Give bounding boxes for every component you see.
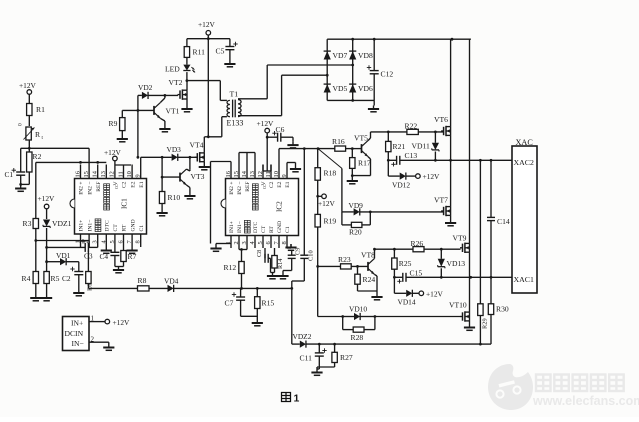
resistor R2 <box>27 152 32 172</box>
wire bus down to VDZ2 <box>291 288 293 344</box>
svg-text:R16: R16 <box>332 137 345 146</box>
wire LED to R11 <box>186 57 188 64</box>
svg-text:VT1: VT1 <box>166 107 180 116</box>
svg-text:1: 1 <box>75 240 82 243</box>
wire R26 to VT9 gate <box>424 248 461 250</box>
wire C10 bottom hook to bus <box>303 258 305 281</box>
svg-text:+12V: +12V <box>19 81 37 90</box>
rectifier bottom bus <box>327 99 374 101</box>
junction R21 top <box>387 131 390 134</box>
figure caption 图1 <box>282 393 291 402</box>
wire VD3 to VT4 gate <box>178 156 198 158</box>
svg-text:RT: RT <box>269 226 275 233</box>
wire R27 bottom <box>334 363 336 368</box>
svg-text:IN2 +: IN2 + <box>229 182 235 195</box>
transistor VT7 mosfet <box>441 210 444 212</box>
svg-text:E133: E133 <box>227 119 244 128</box>
wire IC2 pin16 left rail <box>230 162 232 165</box>
wire VT8 collector <box>374 256 376 258</box>
resistor R12 <box>239 262 244 274</box>
svg-text:R28: R28 <box>351 333 364 342</box>
svg-text:C12: C12 <box>381 70 394 79</box>
svg-text:R21: R21 <box>393 142 406 151</box>
svg-text:E1: E1 <box>139 181 145 187</box>
svg-text:R3: R3 <box>23 219 32 228</box>
svg-text:R17: R17 <box>358 159 371 168</box>
resistor R18 chain <box>317 149 319 168</box>
svg-text:VD6: VD6 <box>358 84 373 93</box>
svg-text:CT: CT <box>113 224 119 232</box>
wire VD10 right <box>360 316 375 318</box>
svg-text:R8: R8 <box>138 276 147 285</box>
svg-text:R26: R26 <box>411 239 424 248</box>
zener VD11 <box>434 132 436 143</box>
ground IC1 pin7 <box>131 247 133 251</box>
junction R24 top <box>356 265 359 268</box>
diode VD6 <box>349 84 356 92</box>
wire VT10 drain up <box>469 277 471 312</box>
wire secondary bottom to bridge <box>238 115 282 117</box>
wire R11 to rail <box>186 39 188 47</box>
resistor R26 <box>413 247 424 252</box>
resistor R1 <box>27 104 32 116</box>
wire VD9 rail <box>342 211 354 213</box>
ground R5 <box>46 284 48 295</box>
wire VT8 emitter <box>375 274 378 276</box>
wire R22 to VT6 gate <box>418 131 443 133</box>
wire <box>28 94 30 103</box>
resistor R21 <box>387 132 389 142</box>
wire R3 bottom bus <box>35 229 37 272</box>
svg-text:16: 16 <box>225 171 232 177</box>
svg-text:9: 9 <box>281 174 288 177</box>
ground C7 R15 <box>256 320 258 324</box>
svg-text:VDZ1: VDZ1 <box>52 219 72 228</box>
wire VT9 drain to top rail <box>469 39 471 243</box>
capacitor C15 <box>394 276 402 278</box>
wire VT5 emitter <box>368 157 371 159</box>
junction R20 right <box>369 211 372 214</box>
svg-text:VT8: VT8 <box>361 251 375 260</box>
svg-text:9: 9 <box>135 174 142 177</box>
transistor VT8 <box>367 262 369 271</box>
wire C4 bottom <box>114 256 116 267</box>
ground R17 <box>351 178 353 182</box>
wire VD2 <box>138 94 142 96</box>
svg-text:LED: LED <box>165 65 180 74</box>
wire C8 to ground <box>268 257 270 259</box>
wire VT4 drain <box>203 137 205 153</box>
wire C13 to VD11 node <box>400 159 436 161</box>
svg-text:VT2: VT2 <box>169 78 183 87</box>
resistor R5 <box>44 272 49 284</box>
svg-text:+12V: +12V <box>113 318 131 327</box>
svg-text:E2: E2 <box>277 181 283 187</box>
svg-text:VDZ2: VDZ2 <box>293 332 312 341</box>
wire to VT10 gate <box>375 316 461 318</box>
svg-text:C1: C1 <box>139 225 145 232</box>
svg-text:6: 6 <box>118 240 125 243</box>
svg-text:8: 8 <box>135 240 142 243</box>
svg-text:12: 12 <box>257 171 264 177</box>
svg-text:C1: C1 <box>285 226 291 233</box>
svg-text:RT: RT <box>122 224 128 231</box>
wire C11 bottom <box>318 356 320 369</box>
XAC1 wire <box>441 276 512 278</box>
wire VD9 to VT7 gate <box>360 211 444 213</box>
diode VD14 <box>406 290 412 297</box>
svg-text:+12V: +12V <box>426 290 444 299</box>
IC2 pin stubs bottom <box>230 236 232 249</box>
svg-text:VD9: VD9 <box>349 201 364 210</box>
svg-text:C2: C2 <box>62 274 71 283</box>
wire node to IC1 pin2 <box>36 240 89 242</box>
ground IC2 pin8 <box>287 247 291 249</box>
wire VD1 to C2 <box>66 261 79 263</box>
svg-text:R29: R29 <box>482 318 489 329</box>
resistor R8 <box>138 286 150 291</box>
capacitor C8 <box>264 248 266 258</box>
svg-text:IN+: IN+ <box>71 319 83 328</box>
wire VD2 to VT2 gate <box>148 94 178 96</box>
svg-text:R23: R23 <box>338 255 351 264</box>
junction VD2 base crossing <box>137 109 140 112</box>
svg-text:IC2: IC2 <box>276 201 284 212</box>
capacitor C7 <box>240 288 242 297</box>
capacitor C13 <box>388 159 396 161</box>
junction bottom bus <box>351 99 354 102</box>
junction R23 node <box>316 265 319 268</box>
junction VD11 gate node <box>434 131 437 134</box>
svg-text:IN1+: IN1+ <box>229 221 235 233</box>
diode VD12 branch <box>387 160 389 176</box>
ground IC1 pin4 <box>105 247 107 251</box>
svg-text:2: 2 <box>233 241 240 244</box>
ground C9 <box>282 273 284 277</box>
svg-text:IN2 −: IN2 − <box>237 182 243 195</box>
svg-text:CC: CC <box>263 184 267 189</box>
junction C1 R2 <box>19 183 22 186</box>
svg-text:10: 10 <box>273 171 280 177</box>
rectifier top bus <box>327 38 471 40</box>
svg-text:DCIN: DCIN <box>65 329 84 338</box>
wire R25 bottom <box>393 269 395 277</box>
wire VT6 source down <box>450 135 452 160</box>
XAC2 wire <box>435 159 512 161</box>
DCIN connector box <box>63 317 90 351</box>
wire R15 bottom <box>256 309 258 320</box>
wire VT3 emitter ground <box>187 185 190 187</box>
diode VD8 <box>349 51 356 59</box>
wire R5 chain <box>46 247 48 271</box>
wire C7 bottom <box>240 300 242 316</box>
wire to IC1 pin15 <box>21 147 89 149</box>
svg-text:VT10: VT10 <box>449 301 467 310</box>
wire rail to R3 <box>35 162 37 218</box>
wire secondary top to bridge <box>238 98 267 100</box>
wire R18 to +12V tap <box>317 180 319 214</box>
junction col A <box>326 74 329 77</box>
wire R21 bottom <box>387 152 389 161</box>
ground VT8 <box>376 291 378 294</box>
ground VT10 source <box>469 321 471 324</box>
svg-text:IN2 −: IN2 − <box>87 182 93 195</box>
svg-text:14: 14 <box>241 170 248 177</box>
transformer right winding <box>238 100 241 117</box>
resistor R15 <box>256 288 258 296</box>
junction R25 top <box>393 248 396 251</box>
svg-text:12: 12 <box>109 171 116 177</box>
wire IC2 E1 to ground <box>286 163 288 165</box>
svg-text:C14: C14 <box>497 217 510 226</box>
svg-text:R7: R7 <box>128 252 137 261</box>
svg-text:6: 6 <box>265 241 272 244</box>
svg-text:0: 0 <box>18 123 24 126</box>
svg-text:C5: C5 <box>216 47 225 56</box>
svg-text:R: R <box>35 130 41 139</box>
junction R17 top <box>351 147 354 150</box>
capacitor C10 top wire <box>303 149 305 256</box>
ground bridge <box>373 100 375 105</box>
wire R23 to VT8 base <box>351 265 368 267</box>
resistor R27 <box>334 344 336 352</box>
svg-text:E2: E2 <box>130 181 136 187</box>
wire E2 rail to R16 <box>279 148 335 150</box>
svg-text:R30: R30 <box>496 305 509 314</box>
node B junction <box>45 246 48 249</box>
svg-text:XAC1: XAC1 <box>514 275 534 284</box>
svg-text:8: 8 <box>281 241 288 244</box>
wire R17 bottom <box>351 168 353 177</box>
svg-text:VD2: VD2 <box>138 83 153 92</box>
wire R16 to VT5 base <box>346 148 362 150</box>
+12V terminal VD14 <box>412 292 419 294</box>
svg-text:11: 11 <box>265 171 272 177</box>
svg-text:11: 11 <box>117 171 124 177</box>
resistor R23 <box>318 265 341 267</box>
ground R9 <box>121 131 123 136</box>
svg-text:R12: R12 <box>224 263 237 272</box>
junction VT3 base rail <box>161 176 164 179</box>
wire <box>20 175 22 188</box>
svg-text:C13: C13 <box>405 151 418 160</box>
resistor R29 <box>478 304 483 316</box>
wire IC1 E1 to VD3 rail <box>140 157 142 164</box>
svg-text:VD8: VD8 <box>358 51 373 60</box>
capacitor C4 <box>114 247 116 252</box>
svg-text:15: 15 <box>233 171 240 177</box>
ground R10 <box>161 204 163 210</box>
svg-text:C6: C6 <box>276 125 285 134</box>
svg-text:VD11: VD11 <box>412 142 430 151</box>
watermark text dianzifashaoyou <box>536 375 551 392</box>
svg-text:REF: REF <box>245 182 251 192</box>
wire rail down to pin1 ground <box>210 162 212 244</box>
IC1 pin stubs bottom <box>80 234 82 247</box>
bottom bus wire <box>306 343 480 345</box>
junction rail <box>207 37 210 40</box>
wire VD13 bottom <box>440 268 442 277</box>
wire VT2 drain to LED <box>186 81 188 91</box>
ground IC2 E1 <box>295 166 297 170</box>
zener VDZ1 <box>43 220 50 227</box>
resistor R14 <box>274 248 276 256</box>
diode VD4 <box>168 285 174 292</box>
ground VT7 source <box>450 215 452 219</box>
svg-text:R18: R18 <box>324 169 337 178</box>
wire bus to right <box>174 287 292 289</box>
diode VD7 <box>324 51 331 59</box>
svg-text:R22: R22 <box>405 122 418 131</box>
capacitor C5 <box>229 39 231 47</box>
junction R27 <box>333 343 336 346</box>
junction bus corner <box>290 287 293 290</box>
wire R2 bottom <box>28 172 30 184</box>
svg-text:DTC: DTC <box>253 222 259 233</box>
svg-text:+12V: +12V <box>423 172 441 181</box>
capacitor C2 <box>74 271 83 273</box>
svg-text:R14: R14 <box>277 259 284 269</box>
svg-text:VD10: VD10 <box>349 305 367 314</box>
wire IC2 E2 up <box>278 149 280 165</box>
diagonal wire E2 to VD9 <box>318 149 342 169</box>
svg-text:VT9: VT9 <box>453 234 467 243</box>
wire primary bottom to VT4 drain <box>222 116 227 118</box>
diode VD8 column <box>352 39 354 100</box>
wire R12 to bus <box>241 274 243 289</box>
diode VD5 <box>324 84 331 92</box>
svg-text:R25: R25 <box>399 259 412 268</box>
svg-text:+12V: +12V <box>198 20 216 29</box>
transistor VT3 <box>162 176 180 178</box>
svg-text:XAC: XAC <box>516 138 534 147</box>
transistor VT9 mosfet <box>460 247 463 249</box>
wire R30 bottom <box>490 315 492 345</box>
ground C11 R27 <box>316 369 318 373</box>
ground DCIN <box>108 344 110 348</box>
wire VT1 emitter ground <box>161 118 165 121</box>
svg-text:C8: C8 <box>256 250 263 257</box>
wire VT6 drain to top rail <box>450 39 452 126</box>
wire rail down to R10 <box>161 157 163 191</box>
svg-text:13: 13 <box>249 171 256 177</box>
wire R29 bottom <box>479 316 481 345</box>
wire <box>28 140 30 152</box>
junction R16 rail <box>317 147 320 150</box>
svg-text:XAC2: XAC2 <box>514 158 534 167</box>
svg-text:VT6: VT6 <box>434 115 448 124</box>
svg-text:C15: C15 <box>410 269 423 278</box>
wire C14 to XAC1 <box>490 221 492 278</box>
svg-text:C2: C2 <box>122 181 128 188</box>
junction VT1 collector node <box>164 94 167 97</box>
junction VD13 top <box>440 248 443 251</box>
wire VT5 collector to R22 rail <box>368 138 371 141</box>
ground C8 R14 <box>272 273 274 277</box>
transistor VT1 <box>122 109 154 111</box>
wire VD11 bottom <box>434 152 436 161</box>
resistor R10 <box>159 192 164 204</box>
svg-text:REF: REF <box>96 182 102 192</box>
svg-text:R10: R10 <box>168 193 181 202</box>
svg-text:C9: C9 <box>295 248 302 255</box>
wire C2 gnd <box>78 275 80 290</box>
capacitor C1 <box>20 148 22 172</box>
op-amp IC2 box <box>226 179 299 236</box>
svg-text:C10: C10 <box>308 250 315 261</box>
capacitor C10 <box>300 254 308 256</box>
svg-text:IN2 +: IN2 + <box>79 182 85 195</box>
svg-text:t: t <box>42 136 44 141</box>
diode VD10 <box>343 316 354 318</box>
svg-text:CT: CT <box>261 225 267 233</box>
svg-text:5: 5 <box>109 240 116 243</box>
wire C14 column <box>490 160 492 217</box>
svg-text:2: 2 <box>83 240 90 243</box>
svg-text:IC1: IC1 <box>121 198 129 209</box>
svg-text:GND: GND <box>277 221 283 233</box>
IC2 pins 12-11 tie <box>263 170 271 172</box>
diode VD9 <box>354 208 360 215</box>
IC1 pin stubs top <box>80 165 82 179</box>
LED <box>186 72 188 81</box>
wire up to VD2 <box>137 95 139 157</box>
svg-text:16: 16 <box>74 171 81 177</box>
svg-text:13: 13 <box>100 171 107 177</box>
capacitor C12 column <box>373 39 375 70</box>
svg-text:+12V: +12V <box>38 194 56 203</box>
svg-text:3: 3 <box>92 240 99 243</box>
svg-text:VD7: VD7 <box>333 51 348 60</box>
svg-text:R20: R20 <box>349 228 362 237</box>
wire R24 bottom <box>357 284 359 291</box>
svg-text:VD14: VD14 <box>398 298 416 307</box>
svg-text:+12V: +12V <box>318 199 336 208</box>
svg-text:VT5: VT5 <box>354 134 368 143</box>
resistor R16 <box>335 146 346 151</box>
ground C4 R7 <box>118 267 120 271</box>
svg-text:R15: R15 <box>262 299 275 308</box>
resistor R25 <box>393 249 395 258</box>
wire XAC2 drop R29 <box>479 160 481 303</box>
diode VD12 <box>400 173 406 180</box>
+12V terminal mid <box>318 195 322 197</box>
capacitor C14 <box>487 216 495 218</box>
wire C15 right <box>406 276 441 278</box>
transformer core <box>232 100 234 118</box>
svg-text:VT7: VT7 <box>434 196 448 205</box>
wire C3 to R6 <box>88 246 97 248</box>
svg-text:R27: R27 <box>340 353 353 362</box>
svg-text:CC: CC <box>115 184 119 189</box>
op-amp IC1 box <box>75 179 147 235</box>
thermistor Rt <box>26 127 31 140</box>
wire R7 join ground <box>123 262 125 267</box>
diode VD14 branch <box>393 277 395 293</box>
svg-text:GND: GND <box>130 219 136 231</box>
svg-text:R11: R11 <box>193 48 206 57</box>
resistor R3 <box>33 219 38 229</box>
transistor VT10 mosfet <box>460 316 463 318</box>
svg-text:DTC: DTC <box>105 220 111 231</box>
wire +12V down to VT4 node <box>207 39 209 137</box>
IC2 pins 15-13 tie <box>238 153 240 165</box>
svg-text:C2: C2 <box>269 181 275 188</box>
svg-text:R2: R2 <box>33 152 42 161</box>
svg-text:C1: C1 <box>5 170 14 179</box>
svg-text:E1: E1 <box>285 181 291 187</box>
svg-text:VD5: VD5 <box>333 84 348 93</box>
